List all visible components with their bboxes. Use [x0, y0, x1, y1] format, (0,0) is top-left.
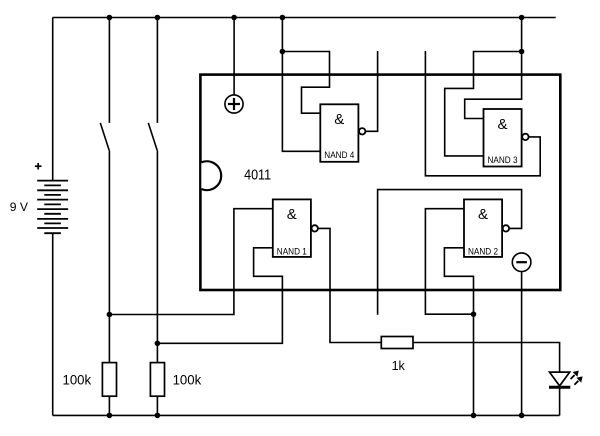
NAND 1 gate U1A: [273, 199, 318, 257]
junction NAND2 inputs tie: [471, 311, 477, 317]
junction ground rail / R1: [107, 413, 113, 419]
wire NAND1 input B from S2 junction: [157, 248, 282, 343]
junction top rail / S1: [107, 15, 113, 21]
junction S1 / NAND1 input A: [107, 312, 113, 318]
junction ground rail / NAND2 input net: [471, 413, 477, 419]
wire NAND4 input A branch: [282, 52, 329, 114]
LED emission arrows: [571, 371, 583, 385]
svg-text:NAND 4: NAND 4: [324, 150, 354, 160]
wire 1k to LED: [413, 343, 560, 372]
wire battery negative lead: [52, 233, 54, 415]
wire top supply rail: [53, 17, 556, 19]
junction top rail / VCC pin: [231, 15, 237, 21]
wire GND pin lead to ground rail: [521, 272, 523, 416]
junction ground rail / R2: [155, 413, 161, 419]
switch S2: [148, 18, 157, 151]
wire R2 to ground rail: [156, 396, 158, 415]
svg-text:9 V: 9 V: [10, 200, 28, 214]
battery plus polarity mark: [35, 163, 42, 170]
svg-text:4011: 4011: [244, 166, 271, 183]
wire NAND2 output to pin stub: [378, 190, 522, 315]
VCC pin marker (circled plus): [225, 95, 243, 113]
wire battery positive lead: [52, 18, 54, 181]
svg-text:&: &: [497, 116, 507, 133]
wire LED cathode to ground rail: [559, 388, 561, 415]
junction ground rail / GND pin: [519, 413, 525, 419]
wire S2 to R2: [156, 150, 158, 362]
resistor R1: [102, 363, 116, 397]
svg-text:1k: 1k: [392, 359, 406, 373]
IC pin-1 notch: [201, 161, 221, 190]
wire VCC pin lead: [233, 18, 235, 95]
NAND 2 gate U1B: [464, 199, 509, 257]
wire S1 to R1: [108, 150, 110, 362]
IC U1 4011 package body: [200, 75, 560, 290]
NAND 3 gate U1C: [484, 109, 529, 167]
svg-text:&: &: [287, 206, 297, 223]
wire NAND2 input A net: [425, 209, 473, 315]
wire NAND4 input B net from rail: [282, 18, 320, 152]
wire bottom ground rail: [53, 414, 560, 416]
junction S2 / NAND1 input B: [155, 341, 161, 347]
wire NAND2 input B net from ground rail: [444, 248, 473, 416]
NAND 4 gate U1D: [320, 104, 365, 162]
junction top rail / S2: [155, 15, 161, 21]
wire NAND1 output to 1k resistor: [318, 228, 381, 342]
svg-text:&: &: [334, 111, 344, 128]
junction top rail / NAND3 net: [519, 15, 525, 21]
svg-text:&: &: [478, 206, 488, 223]
wire NAND3 output to pin stub: [425, 51, 540, 176]
junction top rail / NAND4 net: [280, 15, 286, 21]
svg-text:100k: 100k: [63, 373, 92, 389]
LED D1: [549, 372, 570, 387]
junction NAND4 input branch: [280, 49, 286, 55]
svg-text:NAND 3: NAND 3: [488, 155, 518, 165]
wire NAND3 input A net from rail: [465, 18, 522, 119]
GND pin marker (circled minus): [512, 253, 531, 272]
svg-text:100k: 100k: [173, 373, 202, 389]
svg-text:NAND 2: NAND 2: [468, 247, 498, 257]
switch S1: [100, 18, 109, 151]
wire NAND4 output to pin stub: [365, 51, 377, 131]
resistor R3 1k: [381, 337, 413, 349]
junction NAND3 input branch: [519, 49, 525, 55]
wire R1 to ground rail: [108, 396, 110, 415]
resistor R2: [150, 363, 164, 397]
svg-text:NAND 1: NAND 1: [277, 247, 307, 257]
wire NAND1 input A from S1 junction: [109, 209, 272, 315]
battery B1: [37, 181, 68, 234]
wire NAND3 input B branch: [445, 52, 522, 156]
